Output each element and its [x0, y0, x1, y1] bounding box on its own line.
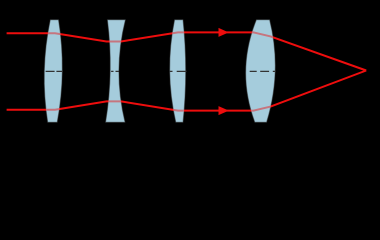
top marginal ray: [7, 32, 367, 70]
arrowhead on bottom ray: [219, 107, 228, 114]
arrowhead on top ray: [219, 29, 228, 36]
lens L4 translucent overlay: [246, 20, 276, 123]
optical axis dash-dot over lens L2: [111, 70, 119, 72]
lens L3 (biconvex) solid base: [170, 20, 186, 123]
svg-text:focusing lens: focusing lens: [217, 128, 293, 143]
lens L1 (biconvex) solid base: [44, 20, 62, 123]
optical axis dash-dot over lens L3: [170, 70, 187, 72]
lens L3 translucent overlay: [170, 20, 186, 123]
lens L1 translucent overlay: [44, 20, 62, 123]
svg-text:afocal zoom system: afocal zoom system: [55, 138, 170, 153]
lens L4 (large biconvex focusing lens) solid base: [246, 20, 276, 123]
optical axis dash-dot over lens L1: [46, 70, 63, 72]
optical axis dash-dot over lens L4: [250, 70, 276, 72]
lens L2 (biconcave) solid base: [106, 20, 126, 123]
bottom marginal ray: [7, 71, 367, 111]
lens L2 translucent overlay: [106, 20, 126, 123]
